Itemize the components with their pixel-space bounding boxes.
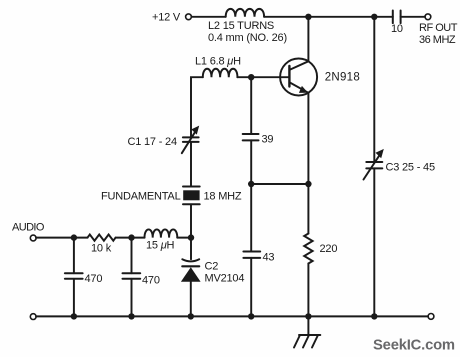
AUDIO terminal xyxy=(30,235,36,241)
wire: collector vertical xyxy=(307,17,309,62)
wire: cap 39 to mid node xyxy=(250,140,252,184)
junction node: mid left xyxy=(248,181,254,187)
resistor 10 k xyxy=(88,235,116,241)
bottom terminal left xyxy=(30,314,36,320)
junction node: mid right xyxy=(305,181,311,187)
wire: C3 branch bottom xyxy=(373,168,375,316)
svg-text:36 MHZ: 36 MHZ xyxy=(419,34,456,46)
svg-text:C2: C2 xyxy=(205,261,219,273)
junction node: rail ground xyxy=(305,313,311,319)
ground xyxy=(307,316,309,335)
svg-text:15 μH: 15 μH xyxy=(146,240,175,252)
svg-text:18 MHZ: 18 MHZ xyxy=(204,190,242,202)
crystal Y1 18 MHZ xyxy=(183,186,200,188)
svg-text:+12 V: +12 V xyxy=(152,12,181,24)
junction node: rail 470a xyxy=(71,313,77,319)
wire: collector node to C3 node xyxy=(308,16,374,18)
svg-text:L1 6.8 μH: L1 6.8 μH xyxy=(195,56,241,68)
+12 V terminal xyxy=(186,14,192,20)
wire: audio terminal to node xyxy=(36,237,87,239)
wire: C3 branch top xyxy=(373,17,375,162)
svg-text:AUDIO: AUDIO xyxy=(12,222,45,234)
wire: emitter vertical xyxy=(307,93,309,184)
wire: C3 node to capacitor 10 xyxy=(374,16,393,18)
capacitor 43 xyxy=(243,251,260,253)
junction node: rail C3 xyxy=(371,313,377,319)
inductor L2 xyxy=(226,9,264,17)
wire: bottom rail xyxy=(36,315,428,317)
wire: +12V terminal to L2 xyxy=(191,16,225,18)
wire: base lead xyxy=(251,76,289,78)
RF OUT terminal xyxy=(425,14,431,20)
resistor 220 xyxy=(304,234,312,264)
svg-text:FUNDAMENTAL: FUNDAMENTAL xyxy=(101,190,181,202)
variable capacitor C3 xyxy=(366,161,382,163)
junction node: top rail collector xyxy=(305,14,311,20)
svg-text:10 k: 10 k xyxy=(91,242,112,254)
junction node: base/L1 xyxy=(248,74,254,80)
junction node: rail 470b xyxy=(128,313,134,319)
wire: L1 left corner xyxy=(191,77,203,137)
svg-text:C3 25 - 45: C3 25 - 45 xyxy=(386,162,435,174)
svg-text:C1 17 - 24: C1 17 - 24 xyxy=(128,136,177,148)
capacitor 10 xyxy=(392,11,394,24)
svg-text:39: 39 xyxy=(262,134,274,146)
wire: L2 to collector node xyxy=(264,16,308,18)
svg-text:43: 43 xyxy=(263,251,275,263)
svg-text:RF OUT: RF OUT xyxy=(419,22,458,34)
bottom terminal right xyxy=(428,314,434,320)
svg-text:MV2104: MV2104 xyxy=(205,273,245,285)
wire: crystal to audio node xyxy=(190,204,192,237)
wire: resistor 220 to bottom rail xyxy=(307,264,309,317)
wire: mid node down to cap 43 xyxy=(250,184,252,252)
inductor 15 uH xyxy=(145,229,178,237)
transistor Q1 2N918 xyxy=(280,59,317,96)
variable capacitor C1 xyxy=(183,136,199,138)
wire: L1 to base node xyxy=(237,76,251,78)
varactor C2 MV2104 xyxy=(190,238,192,260)
svg-text:L2 15 TURNS: L2 15 TURNS xyxy=(208,20,274,32)
wire: mid horizontal link xyxy=(251,183,308,185)
junction node: rail varactor xyxy=(188,313,194,319)
junction node: audio 3 xyxy=(188,234,194,240)
svg-text:470: 470 xyxy=(142,274,160,286)
wire: emitter node down to resistor 220 xyxy=(307,184,309,234)
inductor L1 xyxy=(203,69,238,77)
svg-text:SeekIC.com: SeekIC.com xyxy=(373,337,455,353)
svg-text:470: 470 xyxy=(85,273,103,285)
svg-text:220: 220 xyxy=(320,243,338,255)
junction node: rail cap43 xyxy=(248,313,254,319)
capacitor 470 second xyxy=(131,238,133,274)
capacitor 39 xyxy=(243,133,259,135)
wire: inductor to varactor node xyxy=(177,237,191,239)
capacitor 470 first xyxy=(73,238,75,274)
wire: base node down to cap 39 xyxy=(250,77,252,134)
svg-text:10: 10 xyxy=(391,23,403,35)
wire: C1 to crystal xyxy=(190,142,192,187)
wire: resistor to node xyxy=(116,237,145,239)
junction node: audio 1 xyxy=(71,234,77,240)
junction node: audio 2 xyxy=(128,234,134,240)
wire: cap 43 to bottom rail xyxy=(250,258,252,317)
svg-text:2N918: 2N918 xyxy=(325,72,360,84)
svg-text:0.4 mm (NO. 26): 0.4 mm (NO. 26) xyxy=(208,32,287,44)
junction node: top rail C3 xyxy=(371,14,377,20)
wire: capacitor 10 to RF OUT terminal xyxy=(401,16,425,18)
